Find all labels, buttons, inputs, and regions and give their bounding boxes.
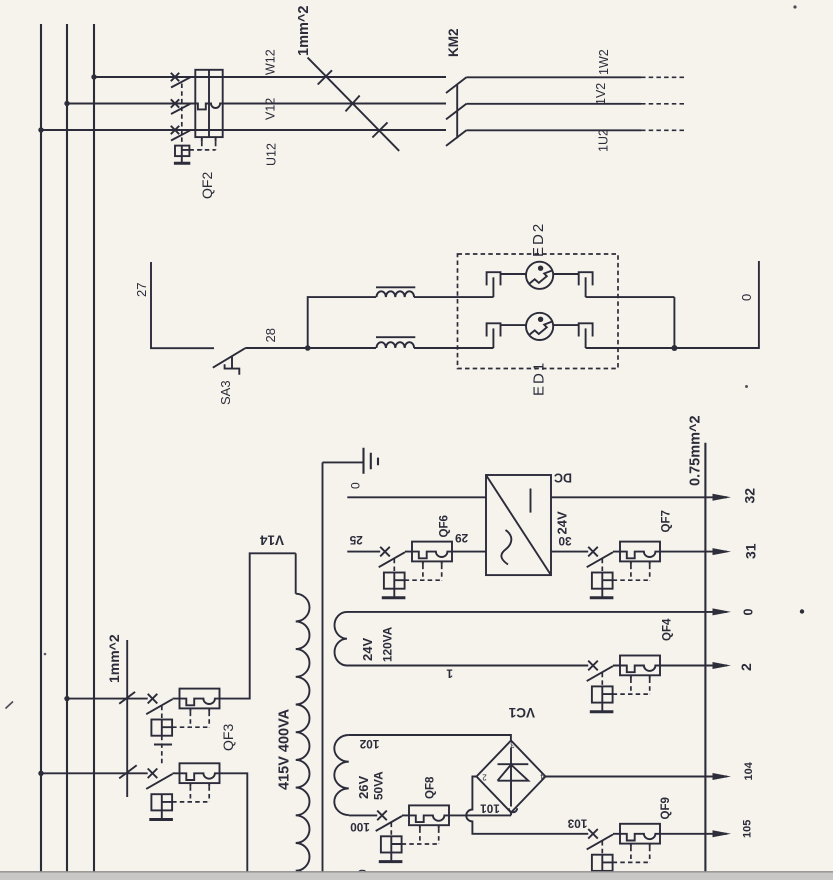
- speck dot right: [800, 609, 804, 613]
- svg-text:1W2: 1W2: [597, 49, 611, 75]
- breaker QF2 box: [195, 70, 222, 137]
- svg-text:U12: U12: [265, 143, 279, 166]
- breaker QF3 pole2 release stem: [161, 810, 163, 819]
- wire V12 right: [223, 103, 446, 105]
- svg-text:QF2: QF2: [199, 172, 215, 199]
- distribution rail: [704, 443, 706, 872]
- wire U12: [41, 129, 446, 131]
- svg-text:ED1: ED1: [531, 361, 548, 396]
- wire 103 from left vertex: [466, 777, 588, 834]
- paper speck 3: [793, 5, 796, 8]
- svg-text:100: 100: [350, 820, 370, 834]
- breaker QF2 linkage: [181, 84, 183, 146]
- switch SA3 arm: [213, 348, 245, 368]
- breaker QF4: [587, 656, 661, 712]
- svg-text:24V: 24V: [360, 638, 375, 661]
- svg-text:KM2: KM2: [446, 28, 461, 57]
- wire 105: [660, 833, 727, 835]
- wire 100 to QF8: [349, 814, 377, 816]
- lamp ED2 right pin: [585, 277, 587, 297]
- ground symbol: [323, 461, 364, 463]
- wire ED1 out: [586, 347, 675, 349]
- wire 28: [245, 347, 376, 349]
- node junction lighting 0: [671, 345, 677, 351]
- bus L2: [66, 24, 68, 872]
- svg-text:105: 105: [742, 820, 754, 838]
- wire 1U2: [466, 129, 641, 131]
- breaker QF3 pole1: [146, 689, 220, 736]
- breaker QF2 magnetic notch: [209, 104, 223, 109]
- svg-text:3: 3: [510, 740, 515, 749]
- transformer T2 secondary 26V: [334, 735, 349, 815]
- breaker QF2 trip links: [202, 137, 216, 142]
- breaker QF2 thermal notch: [195, 104, 209, 110]
- svg-text:QF3: QF3: [220, 724, 236, 751]
- speck mark: [745, 385, 748, 388]
- svg-text:DC: DC: [554, 471, 572, 485]
- arrow 104: [713, 773, 732, 780]
- svg-text:120VA: 120VA: [381, 626, 395, 662]
- wire 102 to bridge: [349, 735, 511, 741]
- DC symbol bar: [530, 489, 532, 513]
- svg-text:W12: W12: [264, 49, 278, 75]
- svg-text:V14: V14: [260, 533, 285, 548]
- rectifier pin 1 mark: [509, 808, 517, 812]
- ballast L1 coil: [377, 291, 415, 297]
- lamp ED1 right lead: [553, 324, 579, 326]
- wire ballast1 to lampbox: [414, 296, 494, 298]
- svg-text:415V 400VA: 415V 400VA: [277, 708, 293, 790]
- breaker QF7: [587, 542, 661, 598]
- svg-text:26V: 26V: [356, 776, 371, 799]
- svg-text:1U2: 1U2: [597, 129, 611, 152]
- svg-text:1: 1: [446, 667, 453, 681]
- wire bus to QF3 pole2: [41, 772, 148, 774]
- svg-text:102: 102: [359, 737, 379, 751]
- wire drop to node 0: [673, 297, 675, 348]
- node tap W12: [91, 74, 96, 79]
- rectifier VC1 diamond: [477, 741, 546, 813]
- wire QF3 pole1 out: [220, 553, 296, 698]
- svg-text:ED2: ED2: [530, 222, 547, 257]
- wire 1V2: [466, 103, 641, 105]
- breaker QF9: [587, 824, 661, 880]
- lamp ED1 left lead: [501, 324, 527, 326]
- lamp ED2 left pin: [492, 277, 494, 297]
- cable marker tick wire1: [318, 70, 332, 84]
- svg-text:24V: 24V: [555, 511, 570, 534]
- scanner edge band: [0, 872, 833, 880]
- paper speck 1: [6, 702, 14, 709]
- svg-text:QF7: QF7: [661, 510, 673, 532]
- wire 29 QF6 to DC: [452, 551, 486, 553]
- wire 1 to QF4: [347, 665, 588, 667]
- lamp ED2 left socket: [487, 272, 501, 285]
- wire 25 to QF6: [347, 551, 380, 553]
- transformer T1 secondary 24V: [335, 612, 348, 666]
- transformer V14 primary lead: [295, 553, 297, 593]
- DC converter diagonal: [486, 475, 551, 575]
- wire lighting 0: [674, 261, 759, 348]
- ballast L2 core: [376, 336, 415, 338]
- svg-text:0: 0: [349, 482, 363, 489]
- lamp ED2 right lead: [553, 273, 579, 275]
- DC converter U1 box: [486, 475, 551, 575]
- node tap QF3 B: [38, 771, 43, 776]
- svg-text:27: 27: [134, 283, 149, 297]
- svg-text:104: 104: [743, 761, 755, 780]
- svg-text:0.75mm^2: 0.75mm^2: [688, 415, 704, 486]
- arrow 32: [713, 494, 732, 501]
- transformer V14 primary winding: [296, 594, 310, 880]
- svg-text:1V2: 1V2: [594, 83, 608, 105]
- breaker QF2 release bar: [174, 162, 190, 165]
- svg-text:101: 101: [480, 801, 500, 815]
- wire 27: [151, 262, 214, 348]
- bus L1: [40, 24, 42, 872]
- node tap QF3 A: [64, 696, 69, 701]
- svg-text:1mm^2: 1mm^2: [106, 634, 122, 683]
- cable marker tick wire3: [372, 122, 387, 137]
- wire 30 DC out to QF7: [551, 551, 588, 553]
- lamp ED2 right socket: [579, 272, 593, 285]
- svg-text:QF6: QF6: [439, 515, 451, 537]
- svg-text:0: 0: [739, 294, 754, 301]
- svg-text:29: 29: [455, 531, 469, 545]
- wire 1W2: [466, 76, 641, 78]
- wire W12: [94, 76, 446, 78]
- lamp ED2 left lead: [501, 273, 527, 275]
- lamp ED1 left pin: [492, 328, 494, 348]
- node tap V12: [64, 101, 69, 106]
- wire 0 rail: [347, 611, 727, 613]
- node 28 junction: [305, 345, 311, 351]
- wire 31: [660, 551, 727, 553]
- switch SA3 handle: [225, 357, 240, 375]
- svg-text:SA3: SA3: [218, 380, 233, 405]
- svg-text:QF9: QF9: [660, 797, 672, 819]
- svg-text:VC1: VC1: [508, 705, 535, 720]
- lamp ED2 bulb: [526, 262, 553, 289]
- svg-text:30: 30: [558, 534, 572, 548]
- svg-text:50VA: 50VA: [372, 771, 386, 800]
- breaker QF6: [379, 542, 453, 598]
- wire 2: [660, 665, 727, 667]
- lamp ED1 left socket: [487, 323, 501, 336]
- lamp ED1 right socket: [579, 323, 593, 336]
- breaker QF2 X contacts: [171, 73, 179, 134]
- svg-text:QF8: QF8: [425, 776, 437, 799]
- contactor KM2 arms: [446, 77, 466, 146]
- svg-text:QF4: QF4: [662, 618, 674, 641]
- lamp ED1 bulb: [526, 313, 553, 340]
- ballast L2 coil: [377, 342, 415, 348]
- breaker QF3 link tick: [154, 744, 172, 746]
- wire V12 left: [67, 103, 195, 105]
- wire 32 DC out: [551, 496, 727, 498]
- arrow 2: [713, 662, 732, 669]
- ballast L1 core: [376, 286, 415, 288]
- contactor KM2 linkage: [456, 85, 458, 138]
- svg-text:4: 4: [540, 772, 545, 781]
- svg-text:0: 0: [742, 609, 756, 616]
- rectifier VC1 diode: [510, 748, 512, 807]
- svg-text:2: 2: [482, 773, 487, 782]
- svg-text:V12: V12: [264, 98, 278, 120]
- node tap U12: [38, 127, 43, 132]
- breaker QF3 release bar: [149, 818, 173, 821]
- breaker QF8: [376, 805, 450, 861]
- wire QF3 pole2 out: [220, 773, 248, 871]
- arrow 105: [713, 830, 732, 837]
- arrow 0: [713, 608, 732, 615]
- svg-text:103: 103: [567, 816, 587, 830]
- arrow 31: [713, 548, 732, 555]
- svg-text:2: 2: [738, 663, 754, 671]
- lamp ED1 right pin: [585, 328, 587, 348]
- breaker QF2 arms: [171, 77, 191, 140]
- svg-text:25: 25: [349, 533, 363, 547]
- breaker QF3 pole2: [146, 763, 220, 810]
- cable marker tick B: [119, 765, 137, 778]
- svg-text:28: 28: [263, 328, 278, 342]
- AC symbol tilde: [501, 530, 511, 565]
- svg-text:32: 32: [742, 488, 758, 504]
- luminaire dashed box: [458, 254, 619, 369]
- wire bus to QF3 pole1: [67, 698, 148, 700]
- svg-text:1mm^2: 1mm^2: [296, 6, 312, 56]
- wire 0 to DC converter: [347, 496, 486, 498]
- cable marker 1mm^2 top diagonal: [308, 58, 400, 151]
- breaker QF3 pole1 linkage: [161, 706, 163, 767]
- wire ED2 out: [586, 296, 675, 298]
- wire branch up: [308, 297, 376, 348]
- wire 101: [449, 813, 511, 816]
- breaker QF2 release coil: [175, 146, 189, 157]
- cable marker tick wire2: [346, 96, 360, 112]
- wire 104: [546, 776, 728, 778]
- wire ballast2 to lampbox: [414, 347, 494, 349]
- cable marker tick A: [119, 692, 135, 704]
- ground rail wire: [322, 462, 324, 871]
- bus L3: [93, 24, 95, 872]
- svg-text:31: 31: [743, 543, 759, 559]
- cable marker 1mm^2 left line: [126, 640, 128, 797]
- paper speck 2: [44, 653, 47, 656]
